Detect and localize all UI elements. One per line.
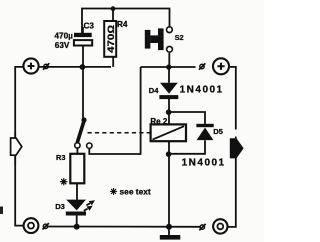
svg-text:D3: D3 bbox=[55, 202, 65, 211]
wire top rail bbox=[82, 9, 170, 34]
svg-text:1N4001: 1N4001 bbox=[180, 85, 224, 96]
wire R3 to D3 bbox=[76, 183, 78, 199]
relay contact arm bbox=[75, 117, 92, 148]
wire D5 top loop bbox=[169, 112, 205, 124]
svg-text:D5: D5 bbox=[213, 127, 223, 136]
wire relay coil top lead bbox=[168, 112, 170, 124]
node supply junction A bbox=[80, 64, 86, 70]
connector left top bbox=[43, 63, 49, 69]
wire R3 top lead bbox=[76, 148, 78, 154]
diode D5 1N4001 bbox=[196, 124, 213, 140]
wire C3 bottom lead bbox=[82, 46, 84, 67]
wire R4 bottom lead bbox=[112, 58, 114, 67]
wire bottom rail bbox=[48, 226, 200, 228]
svg-text:✳: ✳ bbox=[60, 177, 68, 187]
resistor R3 bbox=[70, 154, 84, 184]
terminal 0 bottom-right bbox=[213, 219, 227, 233]
wire right feed to terminal bbox=[230, 67, 236, 130]
wire contact branch bbox=[89, 67, 140, 154]
arrow left (outline) bbox=[11, 132, 22, 165]
connector bottom-right bbox=[199, 224, 205, 230]
wire ground drop bbox=[168, 154, 170, 227]
ground bbox=[160, 235, 181, 240]
wire D3 bottom lead bbox=[76, 215, 78, 226]
diode D4 1N4001 bbox=[159, 83, 178, 99]
node relay top junction bbox=[166, 109, 172, 115]
wire ground stub bbox=[168, 227, 170, 236]
svg-text:S2: S2 bbox=[175, 33, 184, 42]
arrow right (filled) bbox=[230, 137, 243, 161]
node S2 bottom junction bbox=[166, 64, 171, 69]
wire D5 bottom loop bbox=[169, 140, 205, 154]
wire D4 top lead bbox=[168, 67, 170, 83]
wire supply node horizontal bbox=[39, 66, 111, 68]
wire S2 lead bbox=[168, 53, 170, 67]
wire D4 bottom lead bbox=[168, 99, 170, 111]
wire right rail lower bbox=[227, 160, 235, 227]
scan smudge left edge bbox=[0, 207, 3, 215]
svg-text:470Ω: 470Ω bbox=[106, 25, 116, 53]
wire left feed bbox=[15, 67, 24, 226]
svg-text:D4: D4 bbox=[149, 86, 159, 95]
connector bottom-left bbox=[43, 223, 49, 229]
wire relay coil bottom lead bbox=[168, 141, 170, 154]
svg-text:C3: C3 bbox=[84, 22, 95, 31]
wire S2 bottom node bbox=[141, 66, 196, 68]
node relay bottom junction bbox=[166, 151, 172, 157]
svg-text:R3: R3 bbox=[56, 153, 65, 162]
capacitor C3 bbox=[74, 27, 92, 46]
relay coil Re2 bbox=[151, 124, 186, 141]
node top-rail R4 junction bbox=[111, 6, 116, 11]
node ground junction bbox=[166, 224, 172, 230]
node D3 bottom junction bbox=[74, 224, 80, 230]
resistor R4 bbox=[104, 21, 116, 57]
terminal + right bbox=[213, 58, 229, 74]
terminal BT+ left bbox=[23, 58, 38, 73]
switch S2 bbox=[145, 27, 173, 52]
connector right top bbox=[199, 63, 205, 69]
svg-text:✳: ✳ bbox=[110, 187, 118, 197]
svg-text:Re 2: Re 2 bbox=[150, 117, 167, 126]
wire dashed actuator link bbox=[88, 132, 151, 134]
svg-text:see text: see text bbox=[120, 186, 151, 196]
svg-text:R4: R4 bbox=[117, 20, 128, 29]
svg-text:1N4001: 1N4001 bbox=[182, 158, 226, 169]
svg-text:63V: 63V bbox=[55, 41, 70, 50]
wire R4 top lead bbox=[112, 9, 114, 22]
wire contact pivot lead bbox=[82, 67, 84, 120]
LED D3 bbox=[66, 200, 95, 216]
svg-text:470µ: 470µ bbox=[55, 31, 74, 40]
terminal 0 bottom-left bbox=[24, 218, 39, 233]
